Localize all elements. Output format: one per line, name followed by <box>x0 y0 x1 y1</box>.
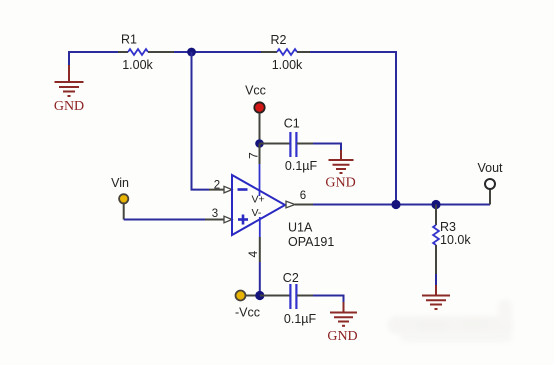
terminal Vout <box>485 179 495 189</box>
svg-text:GND: GND <box>325 176 355 191</box>
pin wire Vcc to node <box>259 113 261 140</box>
pin 2 wire <box>209 189 226 191</box>
wire: pin4 to -Vcc node <box>259 262 261 296</box>
resistor R3 <box>433 205 439 275</box>
svg-text:0.1µF: 0.1µF <box>285 159 318 173</box>
wire: Vin to pin 3 <box>123 204 125 220</box>
svg-text:3: 3 <box>212 208 218 220</box>
pin 6 output wire <box>286 201 295 208</box>
wire: Vout stub <box>489 189 491 205</box>
capacitor C2 <box>260 284 313 309</box>
junction (feedback node, top) <box>187 48 196 57</box>
wire: -Vcc to node <box>246 295 256 297</box>
svg-text:Vin: Vin <box>111 176 129 190</box>
svg-text:R2: R2 <box>271 33 287 47</box>
junction (R3 node) <box>431 200 440 209</box>
svg-text:1.00k: 1.00k <box>122 58 153 72</box>
svg-text:R3: R3 <box>440 220 456 234</box>
pin 7 wire <box>259 144 261 165</box>
svg-text:Vcc: Vcc <box>245 84 266 98</box>
pin 4 wire <box>259 217 261 237</box>
wire: output to Vout <box>313 204 490 206</box>
svg-text:V+: V+ <box>252 194 265 206</box>
op-amp U1A <box>232 175 285 235</box>
resistor R2 <box>261 49 310 55</box>
ground (left, at R1 input) <box>55 65 84 96</box>
watermark <box>388 300 513 342</box>
wire: feedback vertical down to pin 2 <box>192 52 210 190</box>
terminal -Vcc <box>236 291 246 301</box>
terminal Vin <box>119 194 128 203</box>
svg-text:R1: R1 <box>121 33 137 47</box>
svg-text:10.0k: 10.0k <box>440 233 471 247</box>
svg-text:4: 4 <box>246 251 260 258</box>
svg-text:1.00k: 1.00k <box>272 58 303 72</box>
svg-text:GND: GND <box>327 329 357 344</box>
op-amp minus input marking <box>238 188 248 191</box>
resistor R1 <box>118 49 174 55</box>
junction (-Vcc node) <box>255 291 264 300</box>
svg-text:C2: C2 <box>283 271 299 285</box>
wire: GND to R1 top-left segment <box>69 52 120 66</box>
svg-text:C1: C1 <box>284 117 300 131</box>
junction (Vcc node) <box>255 139 264 148</box>
svg-text:OPA191: OPA191 <box>288 235 334 249</box>
op-amp plus input marking <box>238 215 248 225</box>
svg-text:0.1µF: 0.1µF <box>284 312 317 326</box>
wire: R2 to output node (right vertical) <box>310 52 396 205</box>
svg-text:7: 7 <box>246 152 260 159</box>
svg-text:U1A: U1A <box>288 221 313 235</box>
wire: R1 to junction to R2 <box>174 51 261 53</box>
ground (C2) <box>330 302 357 326</box>
terminal Vcc <box>254 102 264 112</box>
wire: C2 to ground <box>313 296 344 305</box>
svg-text:Vout: Vout <box>477 161 503 175</box>
capacitor C1 <box>260 132 314 157</box>
svg-text:2: 2 <box>214 180 220 192</box>
junction (feedback joins output) <box>391 200 400 209</box>
ground (C1) <box>329 150 354 173</box>
wire: R3 to ground <box>435 274 437 287</box>
ground (R3) <box>422 285 450 309</box>
svg-text:6: 6 <box>300 190 306 202</box>
svg-text:GND: GND <box>54 99 84 114</box>
wire: C1 to ground <box>313 144 341 153</box>
svg-text:-Vcc: -Vcc <box>235 306 260 320</box>
pin 3 wire <box>205 219 226 221</box>
